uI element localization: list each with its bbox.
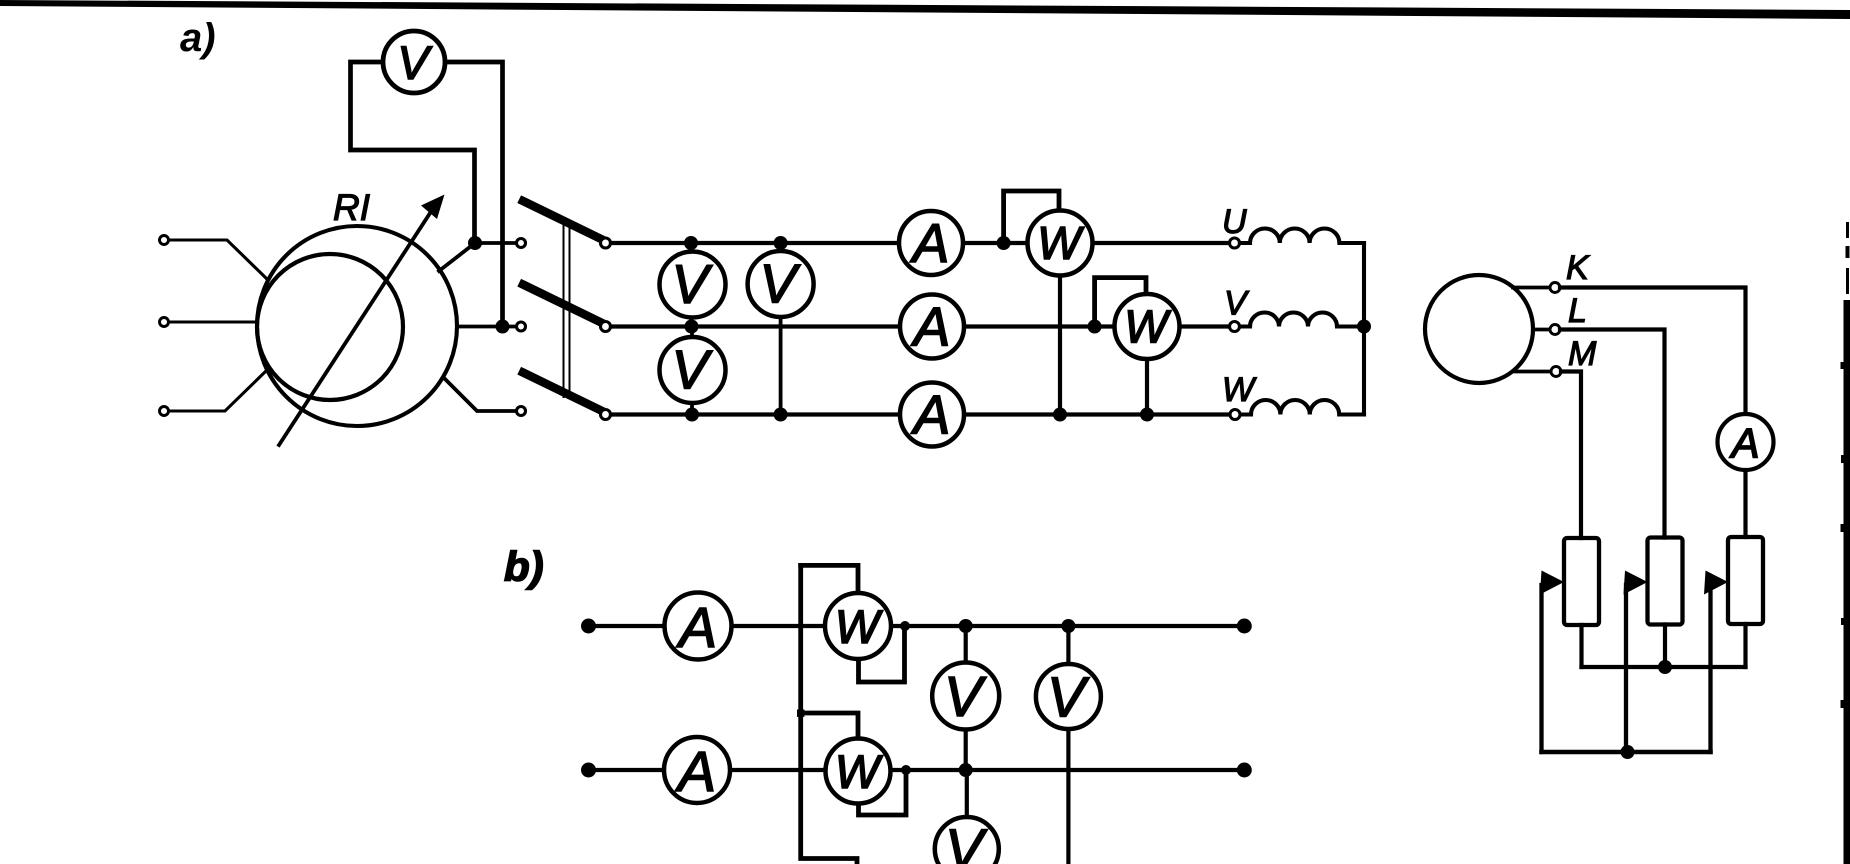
wire wattmeter W1 voltage loop	[1004, 191, 1059, 243]
svg-text:V: V	[672, 253, 713, 315]
svg-text:V: V	[397, 36, 432, 89]
wire motor to L	[1533, 328, 1550, 332]
wire voltmeter V3 branch	[690, 327, 694, 415]
wire voltmeter V2 branch	[779, 243, 783, 415]
node V1 bottom	[685, 320, 699, 334]
wire wattmeter Wb1 voltage loop bottom	[859, 626, 905, 682]
node rheostat bus	[1658, 660, 1672, 674]
node on phase 2	[496, 320, 510, 334]
svg-text:A: A	[676, 596, 717, 660]
ammeter A2	[900, 295, 964, 359]
wire voltmeter Vb3 branch	[965, 770, 969, 822]
load terminal V	[1230, 322, 1240, 332]
wire voltmeter Vb1 branch	[964, 626, 968, 770]
svg-text:b): b)	[504, 543, 544, 590]
wire phase line 3	[611, 412, 1231, 416]
wire wiper 1	[1539, 585, 1543, 752]
switch pole terminal 2	[517, 322, 526, 331]
wire input terminal 2	[169, 320, 258, 323]
wire rheostat 2 bottom	[1663, 625, 1667, 668]
node Wb1 output	[900, 621, 910, 631]
voltmeter V2	[748, 251, 814, 317]
node wiper bus	[1621, 745, 1635, 759]
voltmeter V0	[383, 31, 445, 93]
wire voltage trunk	[801, 565, 857, 864]
voltmeter Vb2	[1036, 664, 1101, 730]
load terminal W	[1230, 410, 1240, 420]
variac RI outer circle	[257, 226, 457, 426]
node line b1 right end	[1237, 619, 1252, 634]
wire K to ammeter A4	[1560, 288, 1746, 415]
node V1 top	[684, 236, 698, 250]
terminal K	[1550, 283, 1560, 293]
wire wattmeter Wb1 voltage loop top	[801, 565, 858, 594]
wire A4 to rheostat 3	[1743, 470, 1747, 537]
wire voltmeter Vb2 branch	[1066, 626, 1070, 864]
node W1 loop	[997, 236, 1011, 250]
wire wiper 2	[1624, 585, 1628, 752]
wire voltmeter V1 branch	[689, 243, 693, 327]
wiper arrow 1	[1540, 571, 1564, 595]
svg-text:RI: RI	[333, 187, 370, 228]
rheostat 1	[1564, 538, 1599, 625]
svg-text:V: V	[944, 665, 987, 729]
wire rheostat 1 bottom	[1579, 625, 1583, 667]
motor M	[1425, 275, 1533, 383]
voltmeter V3	[660, 337, 726, 403]
switch contact 1	[601, 238, 611, 248]
switch blade 1	[523, 201, 601, 239]
wire variac to phase 1	[439, 243, 517, 271]
ammeter Ab1	[665, 593, 732, 661]
wire voltmeter V0 right lead	[445, 62, 503, 327]
switch contact 3	[601, 410, 611, 420]
wire wattmeter Wb2 voltage loop bottom	[859, 770, 907, 815]
wire L to rheostat 2	[1560, 330, 1665, 538]
svg-text:A: A	[911, 296, 951, 358]
svg-text:V: V	[760, 253, 801, 315]
svg-text:W: W	[1124, 301, 1172, 353]
switch linkage bar	[564, 221, 570, 397]
variac adjustment arrow	[279, 195, 445, 446]
ammeter A4	[1718, 414, 1774, 470]
svg-text:L: L	[1568, 292, 1587, 330]
wire rheostat 3 bottom	[1743, 624, 1747, 667]
node line b2 right end	[1237, 763, 1252, 778]
wire variac to phase 2	[457, 325, 516, 329]
wire input terminal 1	[169, 240, 269, 280]
terminal L	[1550, 325, 1560, 335]
wire motor to M	[1513, 370, 1551, 374]
ammeter A3	[900, 383, 964, 447]
input terminal 3	[160, 407, 169, 416]
wire M to rheostat 1	[1561, 372, 1581, 539]
wattmeter W1	[1028, 211, 1093, 276]
wire phase line 1	[611, 241, 1231, 245]
wattmeter Wb1	[825, 593, 891, 659]
node Vb1 top	[959, 619, 973, 633]
wire wattmeter Wb2 voltage loop top	[801, 713, 858, 740]
wire input terminal 3	[169, 372, 266, 411]
voltmeter V1	[660, 252, 726, 318]
svg-text:U: U	[1222, 203, 1247, 241]
switch pole terminal 3	[517, 407, 526, 416]
input terminal 1	[160, 236, 169, 245]
wire line b1	[589, 624, 1245, 628]
node line b1 left end	[581, 619, 596, 634]
ammeter Ab2	[664, 737, 730, 804]
node Wb2 output	[901, 765, 911, 775]
load coil phase 3	[1241, 400, 1364, 415]
switch blade 2	[523, 285, 601, 323]
scan edge right	[1841, 222, 1850, 864]
svg-text:W: W	[835, 745, 884, 798]
load coil phase 2	[1240, 313, 1364, 327]
wire star bus	[1362, 243, 1366, 415]
switch blade 3	[523, 373, 601, 411]
node Vb1 bottom	[959, 763, 973, 777]
svg-text:V: V	[672, 339, 713, 401]
load terminal U	[1230, 238, 1240, 248]
terminal M	[1551, 367, 1561, 377]
wattmeter W2	[1115, 294, 1180, 359]
node W2 coil phase 3	[1140, 408, 1154, 422]
wire wattmeter W2 voltage loop	[1095, 278, 1146, 327]
variac RI inner circle	[257, 254, 403, 400]
svg-text:A: A	[675, 740, 716, 804]
switch pole terminal 1	[517, 239, 526, 248]
voltmeter Vb3	[935, 817, 999, 864]
load coil phase 1	[1240, 228, 1364, 243]
node star bus	[1357, 320, 1371, 334]
node W2 loop	[1088, 320, 1102, 334]
wire wattmeter W1 voltage coil to phase 3	[1058, 243, 1062, 415]
node Vb2 top	[1061, 619, 1075, 633]
svg-text:a): a)	[180, 16, 216, 60]
wire rheostat bottom bus	[1582, 665, 1746, 669]
node voltage trunk	[797, 710, 804, 717]
wattmeter Wb2	[826, 739, 891, 804]
node on phase 1	[468, 236, 482, 250]
svg-text:A: A	[911, 384, 951, 446]
wire variac to phase 3	[444, 378, 517, 411]
wire motor to K	[1513, 286, 1550, 290]
node W1 coil phase 3	[1053, 408, 1067, 422]
svg-text:V: V	[1047, 666, 1090, 730]
ammeter A1	[899, 211, 963, 275]
node V3 bottom	[685, 408, 699, 422]
rheostat 2	[1648, 538, 1683, 625]
wire wiper 3	[1708, 585, 1712, 752]
wire wattmeter W2 voltage coil to phase 3	[1145, 327, 1149, 415]
svg-text:V: V	[1224, 285, 1250, 323]
switch contact 2	[601, 322, 611, 332]
wire wiper bottom bus	[1542, 750, 1711, 755]
svg-text:W: W	[835, 600, 884, 653]
svg-text:M: M	[1568, 335, 1597, 373]
rheostat 3	[1728, 537, 1763, 624]
wire phase line 2	[611, 324, 1231, 328]
wire line b2	[589, 768, 1245, 772]
voltmeter Vb1	[932, 663, 999, 730]
svg-text:A: A	[910, 212, 950, 274]
wire voltmeter V0 left lead	[351, 62, 475, 243]
wiper arrow 2	[1624, 571, 1648, 595]
page top border bar	[0, 0, 1850, 19]
svg-text:W: W	[1222, 371, 1257, 409]
node line b2 left end	[581, 763, 596, 778]
svg-text:V: V	[945, 818, 988, 864]
svg-text:K: K	[1566, 249, 1590, 287]
input terminal 2	[160, 318, 169, 327]
svg-text:W: W	[1037, 217, 1085, 269]
node V2 bottom	[774, 408, 788, 422]
svg-text:A: A	[1728, 420, 1759, 467]
node V2 top	[774, 236, 788, 250]
wiper arrow 3	[1704, 571, 1728, 595]
